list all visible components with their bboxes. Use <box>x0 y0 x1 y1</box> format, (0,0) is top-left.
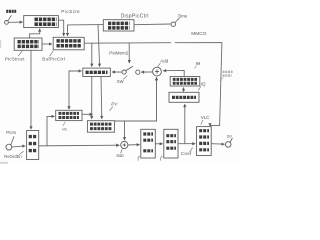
wire: H top up and into J left <box>69 71 82 109</box>
leader PicStruct <box>18 51 22 56</box>
svg-text:ReOrdEn: ReOrdEn <box>4 154 22 159</box>
block B2: buffer picture management <box>53 37 84 50</box>
wire: PV branch down into subtractor <box>124 121 126 140</box>
wire: VLC to stream output terminal <box>211 143 224 146</box>
block D: inverse quantizer <box>169 92 199 102</box>
block E: quantizer <box>164 129 178 158</box>
wire: J bottom to G top (x92) <box>91 77 93 119</box>
label: curl below DCT <box>138 156 140 161</box>
leader VLC <box>201 120 203 124</box>
label: leader mark below H <box>63 122 66 126</box>
svg-text:Coef: Coef <box>181 151 192 156</box>
wire: control line from MMCO line down to switch lever <box>128 43 130 63</box>
wire: main line from reorder to subtractor <box>39 144 120 147</box>
label: bold caption above input terminal <box>6 10 16 13</box>
leader Sub <box>121 149 123 153</box>
wire: IQ top to IDCT bottom <box>183 88 185 93</box>
node: switch contact c1 <box>122 70 126 74</box>
wire: B1 top connector up into block A bottom <box>30 29 40 38</box>
wire: quantizer to VLC <box>178 143 195 145</box>
svg-text:PicIn: PicIn <box>6 130 16 135</box>
leader BufPicCtrl <box>50 51 54 56</box>
wire: DispPicCtrl left line down into B2 top <box>68 25 104 36</box>
svg-text:Sub: Sub <box>116 153 124 158</box>
wire: B1 right to B2 left <box>42 43 52 45</box>
leader IQ <box>198 87 201 91</box>
wire: switch lever <box>126 66 133 71</box>
wire: G right to Add bottom with branch to subtractor <box>114 77 156 121</box>
svg-text:IQ: IQ <box>201 82 206 87</box>
wire: IDCT top to Add right <box>163 70 184 76</box>
wire: MMCO line from B2 right to VLC block top <box>84 42 171 45</box>
node: Time terminal circle <box>171 22 175 26</box>
svg-text:VLC: VLC <box>201 115 211 120</box>
label: faint net label on right vertical <box>220 72 233 81</box>
block A: picture size change request <box>24 16 59 28</box>
label: curl below quantizer <box>161 156 163 161</box>
block B1: picture structure decision <box>14 38 42 50</box>
svg-text:PstMem2: PstMem2 <box>109 51 129 56</box>
block DispPicCtrl <box>103 20 134 31</box>
svg-text:SW: SW <box>117 79 124 84</box>
leader Add <box>158 63 161 66</box>
wire: H right merging into x92 vertical <box>82 113 93 115</box>
svg-text:PicStruct: PicStruct <box>5 57 26 62</box>
edge artifacts <box>0 40 1 48</box>
svg-text:MMCO: MMCO <box>191 31 206 37</box>
node: camera-size input terminal circle <box>5 21 9 25</box>
label: small numeral near IDCT top right <box>194 64 200 69</box>
wire: Time terminal lever <box>175 18 180 23</box>
wire: vertical from MMCO line down into PstMem top (x92) <box>91 43 93 67</box>
svg-text:ME: ME <box>62 127 68 131</box>
wire: block A right to B2 top <box>58 20 63 36</box>
wire: vertical from DispPicCtrl line down into PstMem top (x98) <box>98 25 100 67</box>
leader Coef <box>190 148 193 152</box>
svg-text:Add: Add <box>160 58 169 63</box>
leader PV <box>110 106 113 111</box>
svg-text:DispPicCtrl: DispPicCtrl <box>121 13 149 19</box>
wire: switch c1 to J right <box>112 71 122 73</box>
svg-text:Str: Str <box>227 133 233 138</box>
block C: IDCT <box>170 77 200 87</box>
wire: B1 bottom down into reorder block top <box>30 50 32 129</box>
block I: reorder buffer <box>27 131 39 160</box>
block D1: DCT <box>141 129 156 158</box>
leader SW <box>123 76 127 80</box>
block G: motion compensation <box>87 121 114 133</box>
node: subtractor circle <box>121 141 128 148</box>
node: adder circle Add <box>153 67 162 76</box>
leader ReOrdEn <box>19 151 24 154</box>
svg-text:Time: Time <box>178 13 188 18</box>
wire: branch up to motion estimation left <box>47 116 55 145</box>
wire: DispPicCtrl right to Time terminal <box>134 23 171 26</box>
wire: PicIn lever <box>11 136 14 145</box>
block F: VLC encoder <box>197 127 212 156</box>
wire: input terminal lever <box>8 15 11 20</box>
wire: branch from Q output up into IQ bottom <box>184 104 186 143</box>
node: switch contact c2 <box>136 70 140 74</box>
wire: subtractor to DCT <box>128 144 140 146</box>
wire: output terminal lever <box>230 138 232 142</box>
wire: input arrow into block A <box>9 21 23 23</box>
block J: picture memory <box>83 68 111 76</box>
block H: motion estimation <box>56 110 82 120</box>
wire: DCT to quantizer <box>155 143 162 145</box>
node: PicIn terminal <box>6 144 12 150</box>
svg-text:PicSize: PicSize <box>61 9 80 14</box>
wire: J bottom to G top (x101) <box>100 77 103 119</box>
svg-text:BufPicCtrl: BufPicCtrl <box>42 57 65 62</box>
wire: Add left to switch c2 <box>141 71 152 73</box>
node: stream output terminal <box>225 142 231 148</box>
wire: PicIn arrow into reorder block <box>12 146 25 147</box>
